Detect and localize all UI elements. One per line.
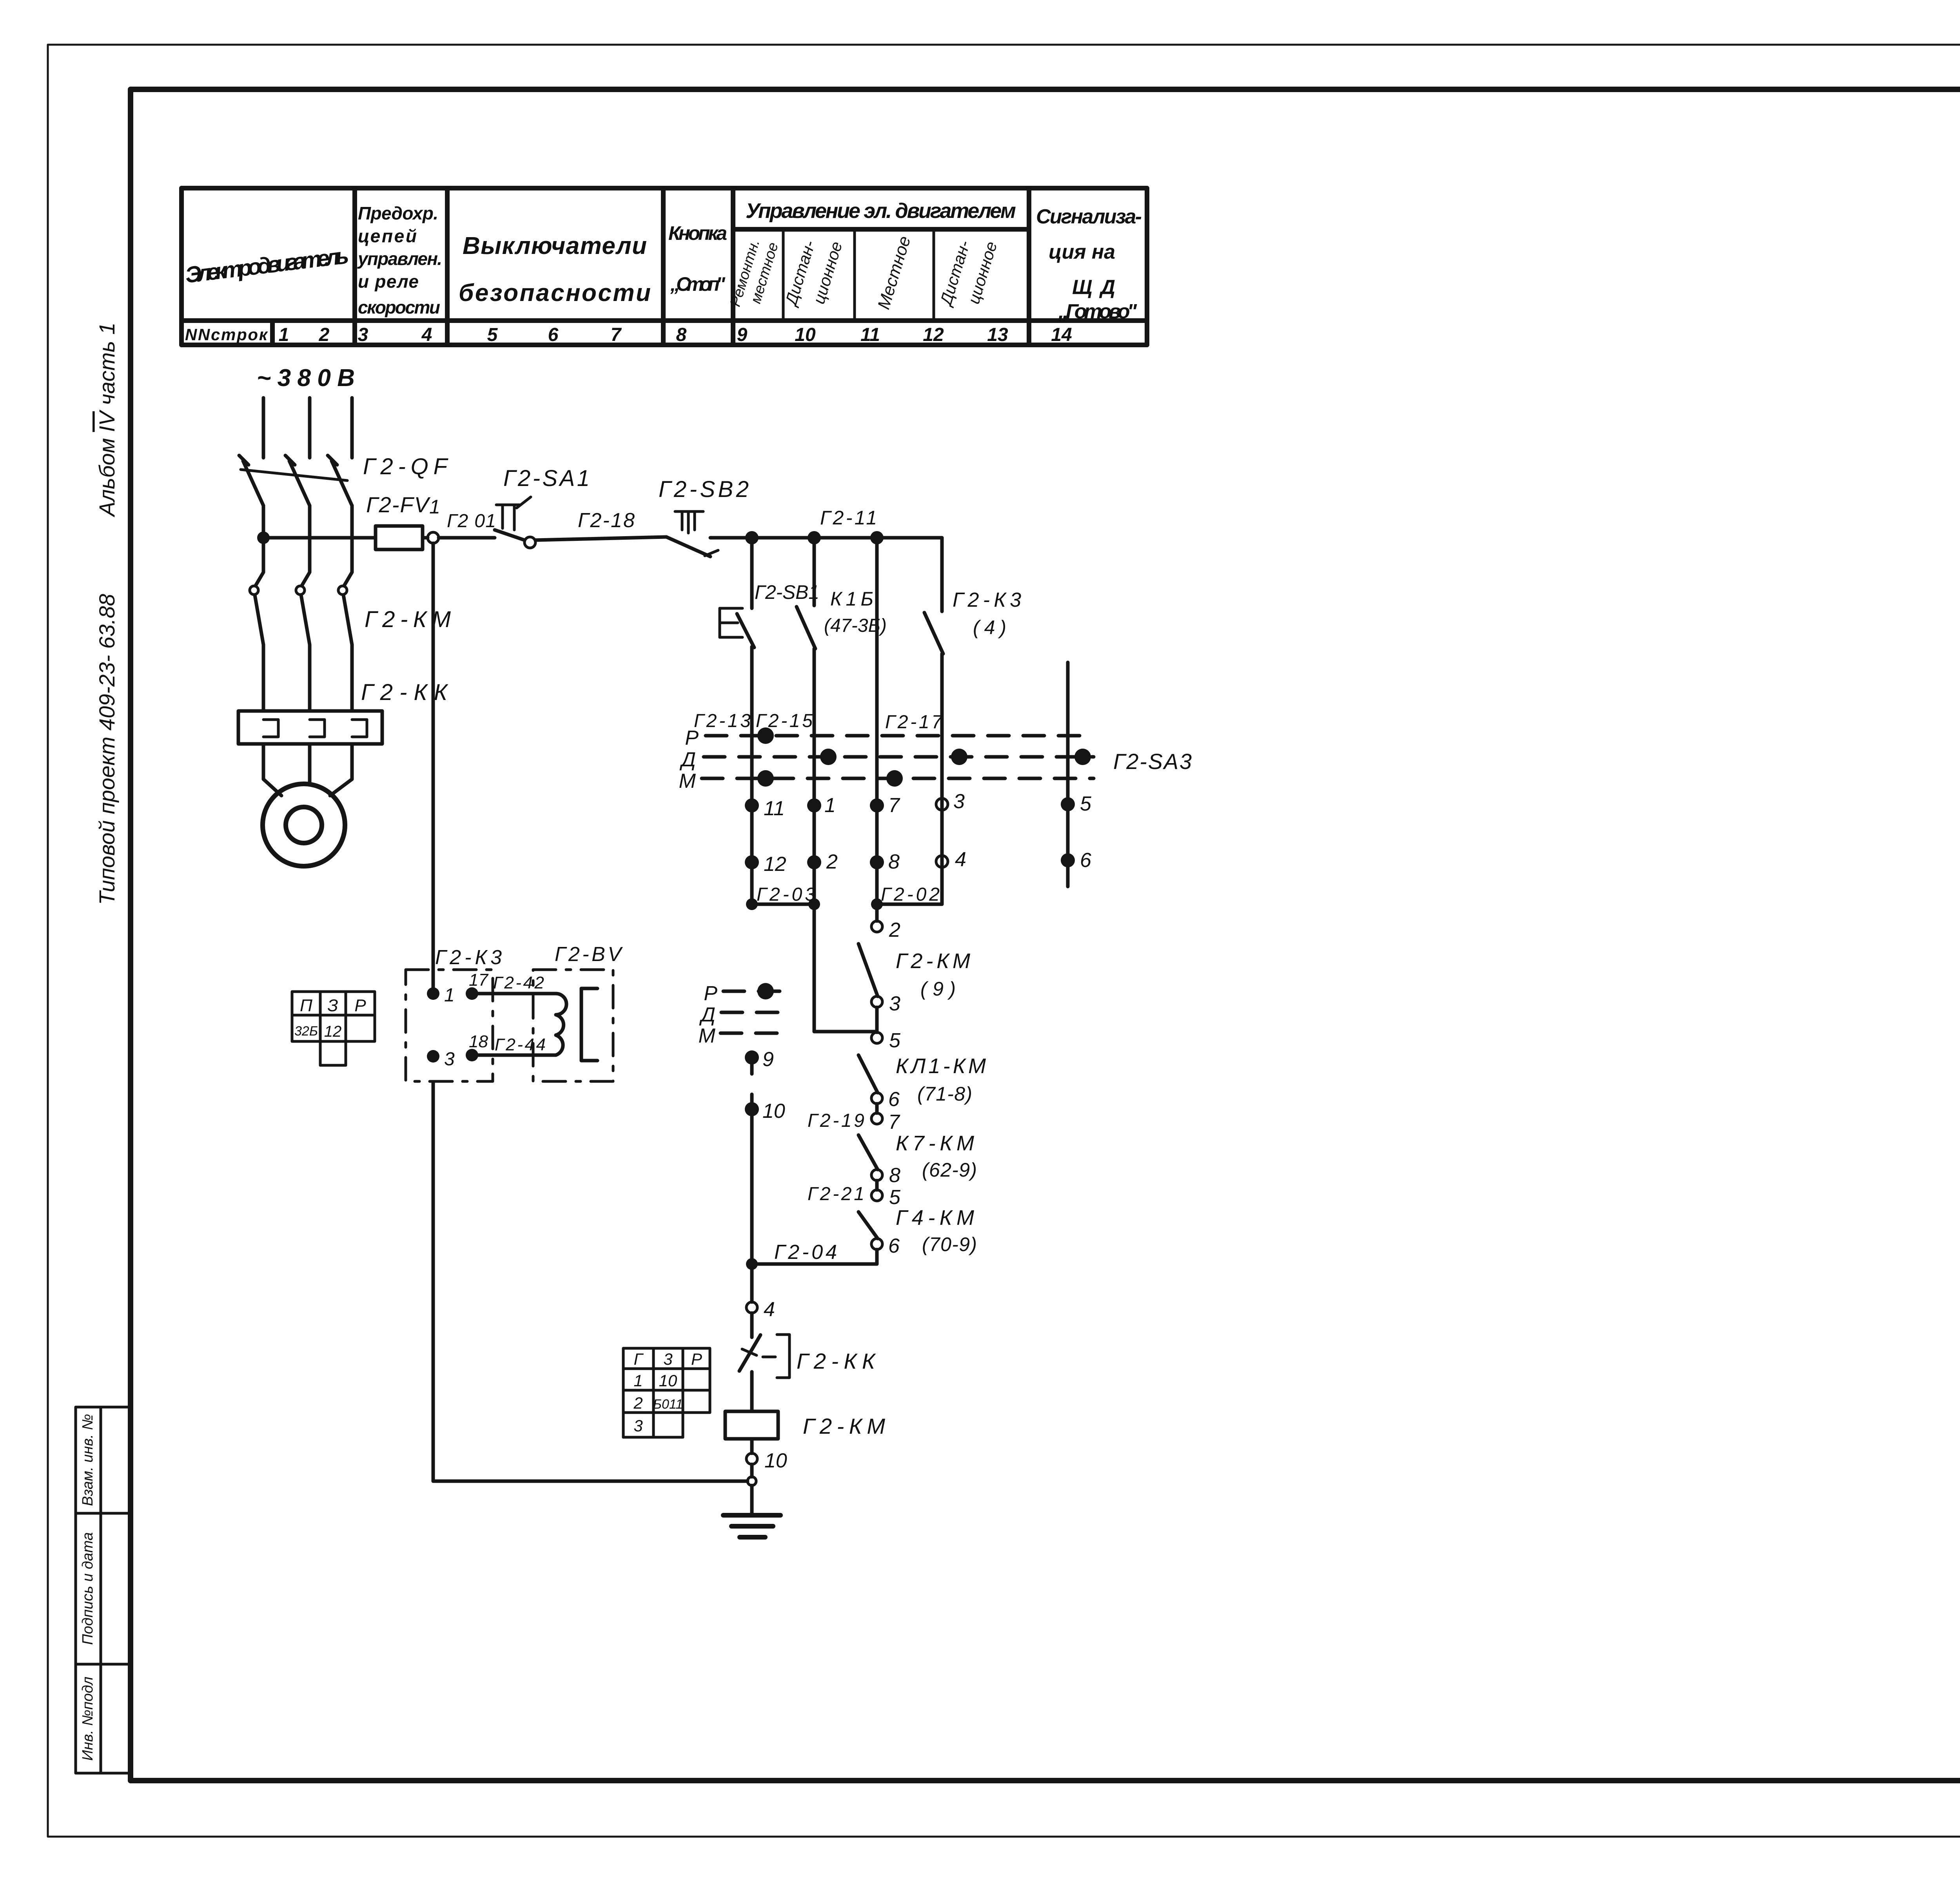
wire label Г2-19 bbox=[808, 1104, 877, 1131]
svg-text:12: 12 bbox=[324, 1023, 342, 1040]
switch Г2-SA1 bbox=[495, 497, 531, 540]
svg-text:10: 10 bbox=[764, 1449, 787, 1472]
svg-text:8: 8 bbox=[888, 851, 900, 873]
К3 pin 3 bbox=[427, 1049, 455, 1070]
svg-text:10: 10 bbox=[795, 325, 816, 345]
Г З Р marking table bbox=[623, 1348, 710, 1437]
contact К7-КМ (62-9) bbox=[858, 1132, 977, 1181]
wire node1 to SA1 bbox=[439, 536, 495, 540]
phase wire A bbox=[262, 398, 265, 458]
bus junction L1 bbox=[745, 531, 759, 544]
sensor coil bbox=[556, 994, 566, 1055]
column header: Выключатели безопасности bbox=[459, 232, 651, 306]
circuit breaker Г2-QF pole 2 bbox=[285, 455, 310, 572]
push button Г2-SB1 bbox=[720, 608, 754, 647]
row numbers strip bbox=[185, 325, 1072, 345]
bus junction L2 bbox=[808, 531, 821, 544]
relay box Г2-К3 bbox=[406, 946, 502, 1081]
svg-text:3: 3 bbox=[633, 1416, 642, 1435]
svg-text:Г2-11: Г2-11 bbox=[820, 507, 877, 529]
svg-text:14: 14 bbox=[1051, 325, 1072, 345]
svg-text:3: 3 bbox=[953, 790, 965, 813]
wire L1 middle bbox=[750, 647, 754, 904]
contact КЛ1-КМ (71-8) bbox=[858, 1054, 986, 1105]
svg-text:Г2-КК: Г2-КК bbox=[797, 1349, 876, 1373]
SA3 contact dots row 1 bbox=[757, 727, 1091, 787]
svg-text:2: 2 bbox=[889, 919, 900, 941]
svg-text:2: 2 bbox=[319, 325, 330, 345]
К3 pin 17 + wire Г2-42 bbox=[466, 970, 556, 1000]
svg-text:Б011: Б011 bbox=[653, 1397, 683, 1412]
thermal contact Г2-КК bbox=[739, 1313, 789, 1411]
svg-text:управлен.: управлен. bbox=[357, 248, 442, 269]
contact Г4-КМ (70-9) bbox=[858, 1206, 977, 1255]
svg-text:безопасности: безопасности bbox=[459, 279, 651, 306]
chain node 6 bbox=[871, 1088, 900, 1111]
svg-text:5: 5 bbox=[487, 325, 498, 345]
svg-text:Р: Р bbox=[685, 727, 699, 749]
column header: Предохр. цепей управлен. и реле скорости bbox=[357, 203, 442, 317]
К3 pin 18 + wire Г2-44 bbox=[466, 1032, 556, 1061]
wire Г2-04 bbox=[752, 1241, 877, 1264]
wire Г2-03 bbox=[746, 884, 820, 910]
node 4 (coil branch) bbox=[746, 1264, 775, 1321]
svg-text:2: 2 bbox=[633, 1394, 642, 1412]
svg-text:Г2-ВV: Г2-ВV bbox=[555, 943, 623, 966]
svg-text:Предохр.: Предохр. bbox=[358, 203, 438, 223]
П З Р marking table bbox=[292, 992, 375, 1065]
svg-text:8: 8 bbox=[676, 325, 687, 345]
svg-text:К1Б: К1Б bbox=[830, 588, 873, 610]
top legend strip table bbox=[181, 188, 1147, 345]
column header: Сигнализация на ЩД Готово bbox=[1036, 205, 1142, 323]
node 10 below coil bbox=[746, 1439, 787, 1472]
svg-text:Г: Г bbox=[634, 1350, 644, 1368]
svg-text:6: 6 bbox=[1080, 849, 1091, 872]
node 6 (row2) bbox=[1061, 849, 1091, 872]
svg-text:10: 10 bbox=[762, 1100, 785, 1123]
svg-text:„Стоп": „Стоп" bbox=[670, 273, 726, 295]
svg-text:Р: Р bbox=[354, 996, 366, 1015]
node 2 (row2) bbox=[807, 851, 838, 873]
sensor core bbox=[581, 988, 597, 1061]
svg-text:1: 1 bbox=[279, 325, 289, 345]
contact К1Б on L2 bbox=[797, 543, 815, 904]
svg-text:М: М bbox=[679, 770, 696, 793]
chain node 5b bbox=[871, 1186, 901, 1209]
wire fuse to node 1 bbox=[423, 536, 428, 540]
svg-text:(70-9): (70-9) bbox=[922, 1233, 977, 1255]
svg-text:К7-КМ: К7-КМ bbox=[896, 1132, 974, 1155]
svg-text:Г2-02: Г2-02 bbox=[881, 884, 940, 905]
svg-text:4: 4 bbox=[955, 848, 966, 871]
svg-text:12: 12 bbox=[923, 325, 944, 345]
svg-text:7: 7 bbox=[888, 1111, 900, 1133]
svg-text:4: 4 bbox=[764, 1298, 775, 1321]
ground bbox=[723, 1485, 780, 1537]
chain node 6b bbox=[871, 1235, 900, 1257]
svg-text:„Готово": „Готово" bbox=[1058, 300, 1137, 323]
svg-text:Г2-К3: Г2-К3 bbox=[953, 589, 1021, 611]
svg-text:9: 9 bbox=[737, 325, 748, 345]
svg-text:1: 1 bbox=[444, 985, 455, 1006]
svg-text:12: 12 bbox=[764, 853, 786, 876]
svg-text:П: П bbox=[300, 996, 312, 1015]
SA3 second section rows bbox=[699, 982, 790, 1047]
node 7 bbox=[870, 794, 900, 817]
control bus wire bbox=[710, 536, 942, 540]
svg-text:Г2-21: Г2-21 bbox=[808, 1184, 864, 1204]
svg-text:(9): (9) bbox=[920, 978, 956, 1000]
svg-text:10: 10 bbox=[659, 1371, 677, 1390]
node 1 bbox=[428, 532, 439, 543]
svg-text:Взам. инв. №: Взам. инв. № bbox=[80, 1414, 96, 1506]
SA3 column wire bbox=[1066, 662, 1070, 887]
vertical wire from node 1 down to relay box bbox=[432, 543, 435, 988]
svg-text:скорости: скорости bbox=[358, 297, 440, 317]
wire L1 upper bbox=[750, 538, 754, 608]
left margin stamp table bbox=[76, 1407, 129, 1773]
QF mechanical link bbox=[241, 470, 347, 481]
circuit breaker Г2-QF pole 3 bbox=[328, 455, 352, 572]
svg-text:1: 1 bbox=[633, 1371, 642, 1390]
svg-text:Г2-04: Г2-04 bbox=[774, 1241, 837, 1264]
svg-text:Г2-18: Г2-18 bbox=[578, 509, 635, 532]
svg-text:5: 5 bbox=[889, 1186, 901, 1209]
svg-text:Кнопка: Кнопка bbox=[668, 222, 727, 244]
label Г2-К3 (4) bbox=[953, 589, 1021, 638]
chain node 8 bbox=[871, 1164, 900, 1187]
svg-text:1: 1 bbox=[824, 794, 836, 817]
svg-text:6: 6 bbox=[888, 1235, 900, 1257]
svg-text:3: 3 bbox=[444, 1049, 455, 1070]
contactor coil Г2-КМ bbox=[725, 1411, 885, 1439]
svg-text:Г2-SВ1: Г2-SВ1 bbox=[755, 581, 819, 603]
chain node 3 bbox=[871, 992, 900, 1032]
node 8 bbox=[870, 851, 900, 873]
svg-text:3: 3 bbox=[358, 325, 368, 345]
margin text: album bbox=[94, 323, 119, 517]
label К1Б (47-3Б) bbox=[824, 588, 887, 636]
svg-text:ция на: ция на bbox=[1049, 241, 1115, 263]
node 5 (row1) bbox=[1061, 793, 1092, 815]
svg-text:Р: Р bbox=[691, 1350, 702, 1368]
chain node 7 bbox=[871, 1111, 900, 1133]
thermal relay Г2-КК heaters bbox=[238, 711, 382, 744]
wire L2 lower run to chain bbox=[814, 904, 877, 1032]
svg-text:Д: Д bbox=[679, 748, 696, 771]
wire Г2-02 bbox=[871, 856, 942, 910]
svg-text:цепей: цепей bbox=[358, 226, 417, 246]
wire to fuse bbox=[263, 536, 376, 540]
svg-text:6: 6 bbox=[548, 325, 559, 345]
stop button Г2-SB2 bbox=[666, 511, 718, 557]
svg-text:9: 9 bbox=[762, 1048, 774, 1071]
svg-text:6: 6 bbox=[888, 1088, 900, 1111]
svg-text:Г2-К3: Г2-К3 bbox=[435, 946, 502, 969]
svg-text:11: 11 bbox=[860, 325, 880, 345]
contactor Г2-КМ pole 3 bbox=[338, 572, 352, 711]
svg-text:3: 3 bbox=[889, 992, 900, 1015]
svg-text:Г2-42: Г2-42 bbox=[493, 973, 544, 992]
svg-text:Управление эл. двигателем: Управление эл. двигателем bbox=[746, 199, 1016, 223]
node 11 bbox=[745, 797, 785, 820]
svg-text:1: 1 bbox=[429, 496, 440, 518]
svg-text:8: 8 bbox=[889, 1164, 900, 1187]
svg-text:Альбом IV часть 1: Альбом IV часть 1 bbox=[94, 323, 119, 517]
contact Г2-КМ (9) bbox=[858, 944, 970, 1000]
svg-text:4: 4 bbox=[421, 325, 432, 345]
wire L4 with contact Г2-К3 (4) bbox=[924, 538, 943, 856]
К3 pin 1 bbox=[427, 985, 455, 1006]
svg-text:Г2-03: Г2-03 bbox=[757, 884, 815, 905]
contactor Г2-КМ pole 1 bbox=[250, 572, 263, 711]
svg-text:7: 7 bbox=[888, 794, 900, 817]
selector SA3 row Д dashed bbox=[679, 748, 1094, 771]
selector SA3 row М dashed bbox=[679, 770, 1094, 793]
return wire to relay box bbox=[433, 1082, 748, 1481]
svg-text:Г2-КМ: Г2-КМ bbox=[896, 949, 970, 973]
subheader: Ремонтн. местное bbox=[727, 238, 782, 308]
sensor box Г2-ВV bbox=[533, 943, 623, 1081]
node 12 bbox=[745, 853, 786, 876]
svg-text:Д: Д bbox=[699, 1003, 715, 1026]
node 1 bbox=[807, 794, 836, 817]
junction with return wire bbox=[748, 1464, 756, 1485]
svg-text:Сигнализа-: Сигнализа- bbox=[1036, 205, 1142, 228]
circuit breaker Г2-QF pole 1 bbox=[239, 455, 263, 572]
subheader: Дистанционное (2) bbox=[936, 238, 1001, 308]
svg-text:Типовой проект 409-23- 63.88: Типовой проект 409-23- 63.88 bbox=[94, 594, 119, 905]
svg-text:Подпись и дата: Подпись и дата bbox=[80, 1532, 96, 1645]
svg-text:Г2-FV: Г2-FV bbox=[366, 492, 431, 517]
svg-text:Инв. №подл: Инв. №подл bbox=[80, 1677, 96, 1761]
svg-text:5: 5 bbox=[1080, 793, 1092, 815]
svg-text:З: З bbox=[327, 996, 338, 1015]
column header: Кнопка Стоп bbox=[668, 222, 727, 295]
phase wire B bbox=[308, 398, 312, 458]
chain node 2 bbox=[871, 904, 900, 941]
svg-text:7: 7 bbox=[611, 325, 622, 345]
node 4 (row2) bbox=[936, 848, 966, 871]
svg-text:17: 17 bbox=[469, 970, 488, 990]
svg-text:Г2 01: Г2 01 bbox=[447, 511, 496, 531]
svg-text:Г2-SА3: Г2-SА3 bbox=[1113, 749, 1192, 774]
wire L3 bbox=[875, 543, 879, 904]
svg-text:Г2-19: Г2-19 bbox=[808, 1110, 864, 1131]
junction Г2-04 on L1 bbox=[746, 1258, 758, 1270]
fuse Г2-FV bbox=[376, 526, 423, 549]
wire Г2-18 bbox=[535, 537, 666, 540]
contactor Г2-КМ pole 2 bbox=[296, 572, 310, 711]
chain node 5 bbox=[871, 1029, 901, 1052]
node 3 (row1) bbox=[936, 790, 965, 813]
selector SA3 row P dashed bbox=[685, 727, 1094, 749]
margin text: project number bbox=[94, 594, 119, 905]
subheader: Дистанционное (1) bbox=[781, 238, 846, 308]
node 9 bbox=[745, 1048, 774, 1074]
svg-text:Р: Р bbox=[704, 982, 717, 1005]
svg-text:М: М bbox=[699, 1025, 716, 1047]
motor leads bbox=[263, 744, 352, 796]
svg-text:Выключатели: Выключатели bbox=[463, 232, 647, 259]
junction dot phase A / fuse branch bbox=[257, 531, 270, 544]
node 10 bbox=[745, 1094, 785, 1264]
svg-text:11: 11 bbox=[764, 797, 785, 820]
SA1 right contact node bbox=[524, 537, 535, 548]
svg-text:Г2-44: Г2-44 bbox=[495, 1035, 546, 1054]
svg-text:Г2-13: Г2-13 bbox=[694, 711, 751, 731]
svg-text:2: 2 bbox=[826, 851, 838, 873]
svg-text:32Б: 32Б bbox=[294, 1024, 318, 1039]
svg-text:(71-8): (71-8) bbox=[917, 1083, 972, 1105]
bus junction L3 bbox=[870, 531, 884, 544]
motor M bbox=[263, 784, 345, 866]
svg-text:18: 18 bbox=[469, 1032, 488, 1051]
wire labels Г2-13 Г2-15 Г2-17 bbox=[694, 711, 943, 733]
svg-text:(4): (4) bbox=[973, 617, 1006, 638]
wire label Г2-21 bbox=[808, 1181, 877, 1204]
svg-text:13: 13 bbox=[987, 325, 1008, 345]
svg-text:и реле: и реле bbox=[358, 271, 419, 292]
svg-text:Г2-17: Г2-17 bbox=[885, 712, 943, 733]
phase wire C bbox=[350, 398, 354, 458]
svg-text:(62-9): (62-9) bbox=[922, 1159, 977, 1181]
svg-text:5: 5 bbox=[889, 1029, 901, 1052]
svg-text:3: 3 bbox=[663, 1350, 672, 1368]
